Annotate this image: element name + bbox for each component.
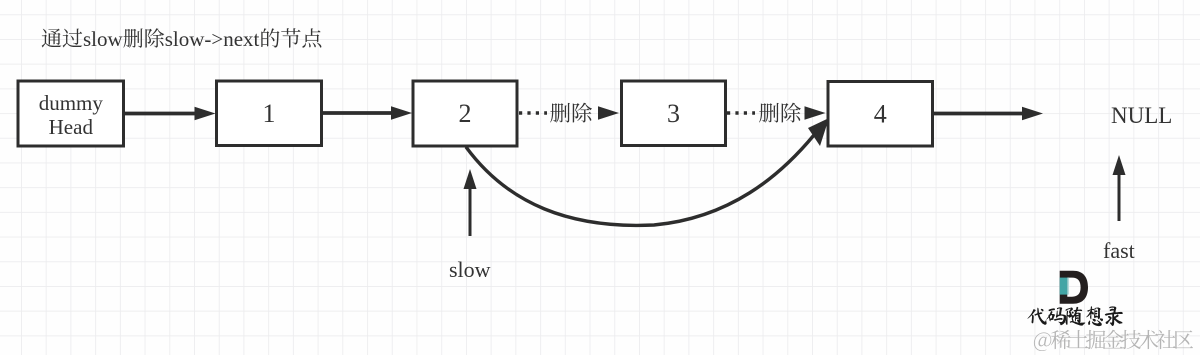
svg-text:2: 2 bbox=[459, 99, 472, 128]
watermark 代码随想录 bbox=[1027, 306, 1122, 326]
svg-text:slow: slow bbox=[83, 27, 124, 51]
dotted link 2 to 3 with 删除 bbox=[519, 103, 619, 123]
node box 3 bbox=[622, 81, 726, 146]
svg-text:4: 4 bbox=[874, 99, 887, 128]
title 通过slow删除slow->next的节点 bbox=[42, 27, 322, 51]
curved arrow slow->next bypass from 2 to 4 bbox=[466, 118, 829, 225]
watermark D logo bbox=[1060, 271, 1088, 304]
svg-text:NULL: NULL bbox=[1111, 103, 1172, 128]
arrow 1 to 2 bbox=[322, 106, 413, 120]
node box 4 bbox=[828, 82, 933, 147]
svg-text:3: 3 bbox=[667, 99, 680, 128]
watermark @稀土掘金技术社区 bbox=[1034, 330, 1193, 351]
node box 2 bbox=[413, 81, 517, 146]
node box dummy head bbox=[18, 81, 124, 146]
arrow 4 to NULL bbox=[933, 107, 1044, 121]
dotted link 3 to 4 with 删除 bbox=[727, 103, 826, 123]
slow pointer arrow bbox=[464, 169, 477, 236]
svg-text:slow->next: slow->next bbox=[165, 27, 260, 51]
svg-text:dummy: dummy bbox=[39, 91, 104, 115]
svg-text:Head: Head bbox=[49, 115, 94, 139]
svg-text:slow: slow bbox=[449, 257, 491, 282]
svg-text:1: 1 bbox=[263, 99, 276, 128]
fast pointer arrow bbox=[1113, 155, 1126, 221]
arrow dummyHead to 1 bbox=[124, 107, 216, 121]
node box 1 bbox=[217, 81, 322, 146]
svg-text:fast: fast bbox=[1103, 238, 1135, 263]
